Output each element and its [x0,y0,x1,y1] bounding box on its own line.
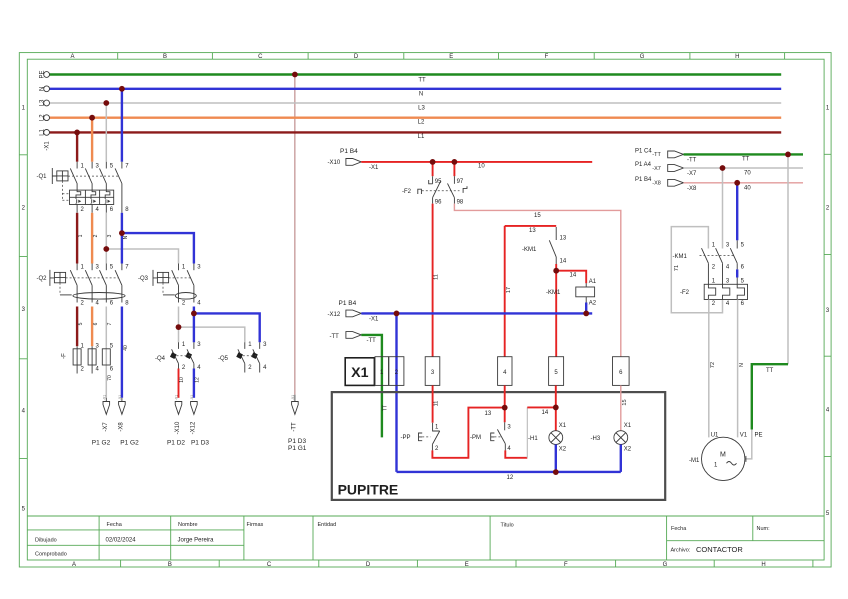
bus drop L2 to Q1 [91,118,93,162]
wire 12 blue lamps return [555,445,557,473]
wire 14 PM to H1 [505,450,527,457]
Q3 manual operator [153,270,157,286]
left row ticks [19,155,27,459]
terminal X1-3 [425,357,440,386]
junction L2 bus / Q1 drop [89,115,95,121]
svg-text:-PP: -PP [401,435,411,441]
breaker Q3 [138,265,201,307]
Q1 magnetic I> symbols [77,199,106,203]
svg-text:P1 C4: P1 C4 [635,149,652,155]
terminal X1-4 [498,357,512,386]
svg-text:-X8: -X8 [118,422,124,432]
svg-text:-TT: -TT [652,152,661,158]
svg-text:Dibujado: Dibujado [35,538,57,544]
breaker Q1 [37,162,130,213]
wire Q3 to Q4/Q5 blue [193,307,195,314]
svg-text:P1 A4: P1 A4 [635,162,652,168]
junction node 14 at H1 [553,405,559,411]
svg-text:-PM: -PM [470,435,481,441]
junction node L3 to Q3 [103,246,109,252]
right row numbers [826,106,830,518]
junction L1 bus / Q1 drop [74,130,80,136]
lamp -H1 [528,423,567,453]
thermal overload -F2 main [680,279,748,308]
svg-text:Comprobado: Comprobado [35,552,67,558]
junction node 13 at PM [502,405,508,411]
svg-text:-TT: -TT [367,338,377,344]
svg-text:Jorge Pereira: Jorge Pereira [178,538,215,544]
F2 NO contact 97-98 [453,162,455,176]
svg-text:P1 D3: P1 D3 [288,438,306,445]
svg-text:-KM1: -KM1 [673,254,688,260]
junction wire 10 / F2-95 [430,159,436,165]
wire 11 red X1-3 to PP [432,385,434,422]
wire 70 silver right [684,167,804,169]
junction node 12 at H1 return [553,469,559,475]
wire TT green elbow to X1-1 [361,335,382,357]
wire 12 blue X1-2 into desk [395,313,397,472]
Q3 contact arms [172,270,194,285]
Q4 contact arms [172,349,194,363]
svg-text:N: N [739,363,745,367]
svg-text:PUPITRE: PUPITRE [338,482,399,498]
svg-text:3: 3 [107,234,113,237]
svg-text:-X1: -X1 [102,395,106,401]
Q2 bottom pin numbers [81,301,130,307]
svg-text:-X7: -X7 [687,171,697,177]
svg-text:95: 95 [435,179,442,185]
Q1 top pin numbers 1 3 5 7 [81,163,130,169]
Q2 operator to oval dashed [59,283,61,295]
wire 71 loop F2-4 to KM1-1 [671,227,722,313]
svg-text:5: 5 [78,322,84,325]
svg-text:-X1: -X1 [190,395,194,401]
Q1 trip unit box [70,190,114,204]
terminal circles -X1 [44,72,50,136]
switch Q5 [218,342,267,372]
Q1 pole lines through trip unit [121,184,123,213]
svg-text:D: D [354,54,359,60]
svg-text:70: 70 [107,375,113,381]
svg-text:12: 12 [195,377,201,383]
svg-text:P1 D3: P1 D3 [191,440,209,447]
wire 17 red to X1-4 [504,226,506,357]
wire 40 drop blue to KM1 pole 3 [736,183,738,241]
wire TT green right [684,153,804,155]
svg-text:-KM1: -KM1 [546,290,561,296]
junction wire 40 / KM1 drop [734,180,740,186]
junction TT / PE drop [785,152,791,158]
svg-text:-X7: -X7 [103,422,109,432]
KM1 arms [702,248,738,263]
wire TT green elbow to PE [752,364,788,429]
svg-text:TT: TT [742,156,750,162]
svg-text:-X12: -X12 [190,421,196,434]
Q2 top pin numbers [81,265,130,271]
wire 10 red [361,161,592,163]
svg-text:V1: V1 [740,432,748,438]
bus drop L3 to Q1 [105,103,107,162]
svg-text:96: 96 [435,200,442,206]
svg-text:P1 D2: P1 D2 [167,440,185,447]
svg-text:A: A [72,562,76,568]
connector arrow -X12 [190,395,210,447]
svg-text:L2: L2 [418,120,425,126]
Q4 actuator squares [170,352,177,359]
junction Q3-2 to Q4/Q5 gray [176,324,182,330]
svg-text:11: 11 [434,274,440,280]
wire number labels below Q2 [78,322,129,350]
junction Q3-4 to Q4/Q5 blue [191,311,197,317]
svg-text:L2: L2 [39,114,45,121]
connector arrow -TT (earth distribution) [288,395,307,452]
connector arrow -X8 [635,177,697,192]
svg-text:98: 98 [457,200,464,206]
svg-text:G: G [640,54,645,60]
svg-text:B: B [168,562,172,568]
wire N Q1 to Q2 with tap to Q3 [121,213,123,264]
bus drop N to Q1 [121,89,123,162]
wire 40 light red right [684,182,804,184]
wire Q3 to Q4/Q5 silver [178,307,180,328]
bus TT (green) [50,73,782,75]
svg-text:-TT: -TT [291,422,297,432]
right row ticks [824,154,831,456]
connector arrow -TT top right [635,149,697,164]
junction wire 12 / X1-2 [394,311,400,317]
svg-text:H: H [761,562,765,568]
junction wire 70 / KM1 drop [720,165,726,171]
wire 70 drop to KM1 pole 2 [722,168,724,249]
connector arrow -X10 (control feed) [328,148,380,171]
svg-text:P1 B4: P1 B4 [635,177,652,183]
svg-text:TT: TT [418,78,426,84]
wire number labels between Q1 and Q2 [78,234,129,239]
Q1 bottom pin numbers 2 4 6 8 [81,207,130,213]
svg-text:A: A [70,54,74,60]
fuse F2 [88,349,96,365]
fuse group -F [62,344,114,374]
svg-text:02/02/2024: 02/02/2024 [106,538,137,544]
bus L3 (silver) [50,102,782,104]
svg-text:13: 13 [560,235,567,241]
left row numbers [22,106,26,513]
wire 11 red F2-96 to X1-3 [432,204,434,357]
svg-text:Fecha: Fecha [107,522,123,528]
wire L2 Q1 to Q2 [91,213,93,264]
svg-text:-X7: -X7 [652,166,661,172]
svg-text:D: D [366,562,371,568]
junction wire 10 / F2-97 [452,159,458,165]
svg-text:C: C [258,54,263,60]
svg-text:-X8: -X8 [687,186,697,192]
pushbutton -PM (stop, NC) [470,422,511,452]
svg-text:A1: A1 [589,279,597,285]
svg-text:N: N [123,235,129,239]
svg-text:-X1: -X1 [118,395,122,401]
svg-text:B: B [163,54,167,60]
svg-text:P1 G1: P1 G1 [288,445,307,452]
wire 72 F2-2 to motor U1 [708,300,710,438]
svg-text:Firmas: Firmas [247,522,264,528]
wire Q2 to fuses silver [105,307,107,347]
svg-text:-H3: -H3 [591,436,601,442]
svg-text:10: 10 [179,377,185,383]
svg-text:13: 13 [485,411,492,417]
svg-text:15: 15 [622,399,628,405]
svg-text:-Q3: -Q3 [138,276,149,282]
svg-text:Fecha: Fecha [671,526,687,532]
title block header labels [107,522,771,532]
svg-text:14: 14 [560,258,567,264]
Q2 contact arms [70,270,122,285]
connector arrow -X12 (neutral feed) [328,300,380,323]
svg-text:X2: X2 [624,447,632,453]
Q5 contact arms [238,349,260,363]
F2 NC contact 95-96 [432,162,434,176]
svg-text:G: G [663,562,668,568]
connector arrow -X10 [167,395,185,447]
connector arrow -TT (into panel) [330,332,377,345]
svg-text:PE: PE [755,432,763,438]
overload relay contacts -F2 [402,162,467,206]
wire Q2 to fuses orange [91,307,93,347]
motor -M1 [689,437,745,480]
svg-text:-X1: -X1 [45,141,51,151]
contactor coil -KM1 A1-A2 [546,279,597,307]
motor terminal labels [711,432,763,438]
svg-text:-Q5: -Q5 [218,356,229,362]
connector arrow -X7 [92,395,111,447]
svg-text:P1 B4: P1 B4 [340,148,358,155]
terminal strip label box X1 [345,358,374,386]
svg-text:12: 12 [507,475,514,481]
svg-text:-F2: -F2 [402,189,412,195]
wire TT thin earth drop to -TT connector [294,75,296,395]
Q1 contact arms [70,168,122,183]
Q1 pole stubs [77,162,122,169]
terminal X1-2 [389,357,404,386]
bottom column letters [72,562,766,568]
svg-text:-KM1: -KM1 [522,247,537,253]
svg-text:11: 11 [433,401,439,407]
svg-text:TT: TT [766,368,774,374]
wire 70 fuse to -X7 [105,366,107,398]
bus L2 (orange) [50,116,782,118]
svg-text:14: 14 [542,410,549,416]
svg-text:7: 7 [107,322,113,325]
fuse F1 [73,349,81,365]
blue stub KM1-6 to F2-5 [736,269,738,277]
breaker Q2 [37,265,130,307]
svg-text:X1: X1 [559,423,567,429]
junction L3 bus / Q1 drop [103,100,109,106]
svg-text:72: 72 [710,362,716,368]
svg-text:14: 14 [570,273,577,279]
svg-text:Nombre: Nombre [178,522,198,528]
bottom column ticks [121,560,813,567]
svg-text:P1 G2: P1 G2 [120,440,139,447]
junction node N to Q3 [119,230,125,236]
svg-text:X1: X1 [351,365,368,381]
svg-text:TT: TT [383,405,389,411]
wire 12 Q4 to -X12 blue [193,369,195,398]
bus name labels right of center [418,78,426,141]
svg-text:-X1: -X1 [369,165,379,171]
wire 15 light red X1-6 to H3 [620,385,622,430]
svg-text:L3: L3 [39,99,45,106]
svg-text:1: 1 [78,234,84,237]
svg-text:C: C [267,562,272,568]
wire 14 red X1-5 to H1 [555,385,557,430]
svg-text:-X1: -X1 [175,395,179,401]
Q1 mechanical linkage dashed [68,175,119,177]
wire L1 Q1 to Q2 [76,213,78,264]
rotated bus terminal labels [39,70,50,150]
bus L1 (dark red) [50,131,782,133]
junction node 14 at KM1 aux [553,268,559,274]
wire Q2 to fuses dark red [76,307,78,347]
svg-text:Num:: Num: [757,526,771,532]
svg-text:-F: -F [62,353,68,359]
top column ticks [118,53,785,60]
svg-text:N: N [419,92,423,98]
Q2 manual operator [50,270,55,286]
pushbutton -PP (start, NO) [401,423,440,452]
svg-text:N: N [39,87,45,91]
svg-text:F: F [545,54,549,60]
wire 17 red X1-4 to PM [504,385,506,422]
svg-text:71: 71 [674,265,680,271]
svg-text:L3: L3 [418,106,425,112]
svg-text:P1 G2: P1 G2 [92,440,111,447]
svg-text:-Q2: -Q2 [37,276,48,282]
terminal X1-6 [613,357,630,386]
wire 15 light red F2-98 to X1-6 [454,204,620,357]
Q2 withdrawable oval [73,293,125,300]
svg-text:Titulo: Titulo [501,523,514,529]
svg-text:-Q1: -Q1 [37,174,48,180]
wire 12 blue [361,312,592,314]
Q3 withdrawable oval [175,293,196,300]
PUPITRE enclosure box [332,392,665,500]
lamp -H3 [591,423,632,453]
fuse wires [77,346,92,373]
wire 10 Q4 to -X10 red [178,369,180,398]
svg-text:17: 17 [506,287,512,293]
svg-text:F: F [564,562,568,568]
svg-text:PE: PE [39,70,45,78]
auxiliary contact -KM1 13-14 [522,227,567,264]
svg-text:-X12: -X12 [328,312,341,318]
Q1 trip linkage dashed [62,181,69,201]
svg-text:15: 15 [534,213,541,219]
junction TT bus / earth drop [292,72,298,78]
svg-text:CONTACTOR: CONTACTOR [696,545,743,554]
svg-text:-TT: -TT [330,334,340,340]
switch Q4 [155,342,201,371]
Q5 actuator squares [236,352,243,359]
svg-text:H: H [735,54,739,60]
svg-text:40: 40 [123,345,129,351]
svg-text:Archivo:: Archivo: [671,548,691,554]
svg-text:-X10: -X10 [328,160,341,166]
svg-text:6: 6 [93,322,99,325]
wire F2-6 to motor V1 [737,300,739,438]
wire TT green X1-1 into desk [381,357,383,438]
title block grid [27,516,824,560]
wire L3 Q1 to Q2 with tap to Q3 [105,213,107,264]
svg-text:L1: L1 [39,128,45,135]
bus N (blue) [50,88,782,90]
svg-text:-X1: -X1 [291,395,295,401]
svg-text:70: 70 [744,171,751,177]
svg-text:Entidad: Entidad [318,522,337,528]
svg-text:P1 B4: P1 B4 [339,300,357,307]
svg-text:13: 13 [529,228,536,234]
svg-text:M: M [720,451,726,458]
terminal X1-1 [375,357,389,386]
fuse F3 [102,349,110,365]
wire TT drop silver to PE [787,154,789,364]
svg-text:-X1: -X1 [369,317,379,323]
svg-text:X2: X2 [559,447,567,453]
svg-text:E: E [465,562,469,568]
contactor main contacts -KM1 [673,243,745,285]
connector arrow -X8 [118,395,139,447]
svg-text:-F2: -F2 [680,290,690,296]
svg-text:-Q4: -Q4 [155,356,166,362]
svg-text:-X8: -X8 [652,181,661,187]
svg-text:10: 10 [478,163,485,169]
PE lead into motor [746,430,752,459]
bus drop L1 to Q1 [76,132,78,161]
wire 14 red KM1 aux to coil and X1-5 [555,264,557,271]
row labels [35,538,691,558]
svg-text:40: 40 [744,185,751,191]
junction wire 12 / coil A2 [583,311,589,317]
svg-text:X1: X1 [624,423,632,429]
F2 thermal elements (zigzag) [708,284,744,299]
svg-text:-M1: -M1 [689,458,700,464]
wire 40 Q2 to -X8 blue [121,307,123,398]
top column letters [70,54,739,60]
inner border frame [27,59,824,560]
svg-text:-TT: -TT [687,157,697,163]
wire A2 to 12 blue stub [585,303,587,314]
connector arrow -X7 [635,162,697,177]
Q1 manual operator [52,168,57,184]
wire 13 red PP to PM [432,408,504,458]
svg-text:-X10: -X10 [175,421,181,434]
F2 actuator dashed line and thermal symbol [422,190,460,192]
svg-text:97: 97 [457,179,464,185]
junction N bus / Q1 drop [119,86,125,92]
wire 13 red to KM1 aux [505,225,557,227]
svg-text:L1: L1 [418,134,425,140]
svg-text:2: 2 [93,234,99,237]
terminal X1-5 [549,357,564,386]
svg-text:-H1: -H1 [528,436,538,442]
Q1 thermal elements (zigzag) [76,184,110,198]
svg-text:E: E [449,54,453,60]
Q2 linkage dashed [66,277,119,279]
svg-text:A2: A2 [589,301,597,307]
